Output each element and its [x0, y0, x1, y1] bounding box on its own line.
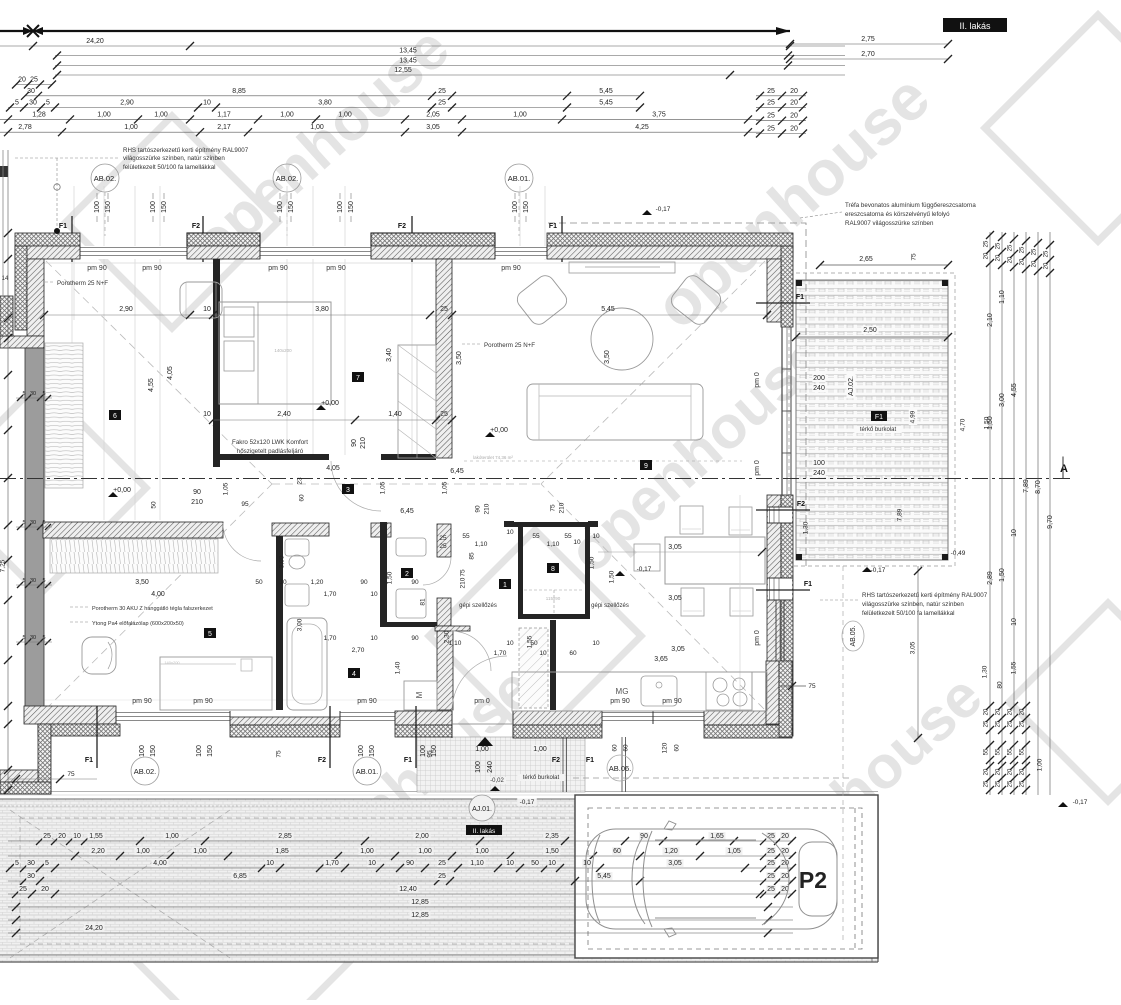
svg-text:F1: F1	[85, 757, 93, 764]
wall pier top F2-2	[371, 233, 495, 246]
interior wall bedroom7 right	[436, 259, 452, 458]
svg-text:150: 150	[207, 745, 214, 757]
svg-text:12,85: 12,85	[411, 912, 429, 919]
svg-text:30: 30	[27, 873, 35, 880]
svg-text:1,05: 1,05	[442, 481, 449, 494]
svg-text:25: 25	[30, 77, 38, 84]
axis circle AB.02 first	[91, 164, 119, 192]
outer wall left step	[0, 336, 44, 348]
svg-text:1,00: 1,00	[1037, 758, 1044, 771]
outer wall right kitchen side	[766, 661, 779, 724]
axis circle AB.05 rotated	[842, 621, 864, 651]
svg-text:100: 100	[150, 201, 157, 213]
room5 armchair	[82, 637, 116, 674]
svg-text:1,50: 1,50	[545, 848, 559, 855]
svg-text:10: 10	[573, 539, 581, 546]
svg-text:3,75: 3,75	[652, 111, 666, 118]
svg-text:1,65: 1,65	[710, 833, 724, 840]
terrace outline dashed offset	[789, 273, 955, 566]
svg-text:A: A	[1060, 463, 1068, 475]
kitchen stove	[706, 672, 752, 710]
svg-text:3,40: 3,40	[386, 348, 393, 362]
svg-text:10: 10	[592, 640, 600, 647]
interior stem wall below room8	[550, 620, 556, 710]
svg-text:30: 30	[27, 88, 35, 95]
svg-text:210: 210	[484, 503, 491, 514]
kitchen sink	[641, 676, 677, 706]
svg-text:1,50: 1,50	[609, 570, 616, 583]
svg-text:60: 60	[569, 650, 577, 657]
svg-text:80: 80	[997, 681, 1004, 689]
svg-text:5: 5	[208, 631, 212, 638]
living dashed ceiling line	[464, 460, 742, 462]
roof hip dashed diagonals	[46, 261, 272, 484]
entrance door opening	[451, 711, 453, 738]
svg-text:F1: F1	[804, 581, 812, 588]
svg-text:2,35: 2,35	[545, 833, 559, 840]
svg-text:Fakro 52x120 LWK Komfort: Fakro 52x120 LWK Komfort	[232, 439, 308, 446]
door arc room5	[223, 523, 261, 561]
window top w3	[495, 246, 547, 259]
svg-text:20: 20	[790, 126, 798, 133]
terrace rotated dims	[909, 409, 918, 425]
svg-text:3,05: 3,05	[668, 860, 682, 867]
watermark diamond mid-left	[0, 382, 146, 594]
svg-text:1,20: 1,20	[311, 579, 324, 586]
svg-text:25: 25	[440, 306, 448, 313]
svg-text:60: 60	[299, 494, 306, 502]
note leader dashed to corner	[15, 157, 120, 159]
svg-text:60: 60	[613, 848, 621, 855]
svg-text:2,78: 2,78	[18, 124, 32, 131]
svg-text:lakóterület 74,36 m²: lakóterület 74,36 m²	[473, 455, 513, 460]
svg-text:5: 5	[22, 520, 25, 526]
svg-text:F2: F2	[552, 757, 560, 764]
svg-text:1: 1	[503, 582, 507, 589]
svg-text:210: 210	[360, 437, 367, 449]
living sofa	[527, 384, 703, 440]
svg-text:1,50: 1,50	[999, 568, 1006, 582]
svg-text:81: 81	[420, 598, 427, 606]
svg-text:24,20: 24,20	[85, 925, 103, 932]
svg-text:-0,17: -0,17	[637, 566, 652, 573]
svg-text:25: 25	[767, 99, 775, 106]
svg-text:25: 25	[996, 242, 1002, 249]
door arc bedroom7	[331, 461, 381, 511]
svg-text:20: 20	[58, 833, 66, 840]
window right rw1	[768, 507, 792, 523]
svg-text:5,45: 5,45	[597, 873, 611, 880]
svg-text:1,00: 1,00	[280, 111, 294, 118]
svg-text:5: 5	[15, 100, 19, 107]
terrace paved area	[796, 280, 948, 560]
svg-text:M: M	[415, 691, 424, 698]
svg-text:3,05: 3,05	[671, 646, 685, 653]
svg-text:55: 55	[532, 533, 540, 540]
svg-text:P2: P2	[799, 867, 827, 893]
svg-text:4,05: 4,05	[167, 366, 174, 380]
svg-text:100: 100	[358, 745, 365, 757]
terrace dim 2,50	[796, 336, 948, 338]
room8 shower dashes	[524, 590, 584, 614]
svg-text:23: 23	[297, 477, 304, 485]
svg-text:MG: MG	[616, 687, 629, 696]
window bottom wb1	[116, 712, 230, 714]
svg-text:-0,17: -0,17	[656, 206, 671, 213]
watermark diamond top-right	[985, 15, 1121, 241]
svg-text:10: 10	[266, 860, 274, 867]
bath4 toilet	[285, 539, 309, 556]
svg-text:30: 30	[30, 635, 36, 641]
svg-text:25: 25	[767, 88, 775, 95]
svg-text:150: 150	[288, 201, 295, 213]
svg-text:6,45: 6,45	[450, 468, 464, 475]
svg-text:1,55: 1,55	[89, 833, 103, 840]
right vertical dimension lines	[989, 232, 991, 795]
garage dashed border	[588, 808, 862, 949]
svg-text:1,70: 1,70	[324, 591, 337, 598]
svg-text:Porotherm 25 N+F: Porotherm 25 N+F	[57, 280, 108, 287]
svg-text:25: 25	[767, 873, 775, 880]
outer wall bottom pier b	[395, 711, 452, 725]
axis circle AB.01	[505, 164, 533, 192]
svg-text:3,80: 3,80	[318, 100, 332, 107]
outer wall bottom-left corner	[24, 706, 116, 724]
svg-text:pm 0: pm 0	[474, 698, 490, 705]
garage stall white area	[575, 795, 878, 958]
window top w1	[80, 246, 187, 259]
svg-text:-0,49: -0,49	[951, 550, 966, 557]
svg-text:240: 240	[487, 761, 494, 773]
svg-text:1,40: 1,40	[395, 661, 402, 674]
svg-text:2,70: 2,70	[861, 51, 875, 58]
svg-text:100: 100	[512, 201, 519, 213]
svg-text:30: 30	[27, 860, 35, 867]
svg-text:24,20: 24,20	[86, 38, 104, 45]
svg-text:25: 25	[438, 100, 446, 107]
axis circles bottom	[131, 757, 159, 785]
svg-text:1,50: 1,50	[589, 556, 596, 569]
svg-text:gépi szellőzés: gépi szellőzés	[591, 603, 629, 609]
svg-text:II. lakás: II. lakás	[959, 21, 991, 31]
section line A-A	[0, 478, 1070, 480]
svg-text:50: 50	[531, 860, 539, 867]
svg-text:25: 25	[440, 411, 448, 418]
svg-text:12,40: 12,40	[399, 886, 417, 893]
svg-text:10: 10	[370, 635, 378, 642]
svg-text:30: 30	[29, 100, 37, 107]
bedroom7 wardrobe	[398, 345, 436, 458]
svg-text:100: 100	[94, 201, 101, 213]
svg-text:-0,17: -0,17	[871, 567, 886, 574]
svg-text:25: 25	[438, 860, 446, 867]
svg-text:10: 10	[1011, 529, 1018, 537]
svg-text:pm 90: pm 90	[662, 698, 682, 705]
svg-text:95: 95	[241, 501, 249, 508]
svg-text:1,40: 1,40	[388, 411, 402, 418]
svg-text:7,89: 7,89	[897, 508, 904, 521]
svg-text:F1: F1	[404, 757, 412, 764]
top dimension rows	[0, 45, 845, 47]
outer wall right upper corner	[781, 246, 793, 327]
svg-text:1,30: 1,30	[803, 521, 810, 534]
svg-text:F1: F1	[875, 414, 883, 421]
svg-text:25: 25	[439, 535, 447, 542]
interior wall bath4 top pier	[272, 523, 329, 536]
car body	[586, 829, 837, 929]
svg-text:AB.02.: AB.02.	[94, 174, 117, 183]
svg-text:1,10: 1,10	[475, 541, 488, 548]
window right kitchen slider	[775, 600, 777, 661]
svg-text:1,55: 1,55	[1011, 661, 1018, 674]
svg-text:100: 100	[139, 745, 146, 757]
svg-text:10: 10	[583, 860, 591, 867]
svg-text:AB.06.: AB.06.	[609, 764, 632, 773]
top right 25-20 tick columns	[756, 95, 806, 97]
svg-text:F1: F1	[796, 294, 804, 301]
svg-text:150: 150	[431, 745, 438, 757]
svg-text:1,28: 1,28	[32, 111, 46, 118]
svg-text:210: 210	[559, 502, 566, 513]
living armchair left	[514, 272, 570, 328]
svg-text:3,00: 3,00	[999, 393, 1006, 407]
svg-text:25: 25	[767, 886, 775, 893]
wall pier top F2-1	[187, 233, 260, 246]
svg-text:210: 210	[460, 577, 467, 588]
svg-text:75: 75	[550, 504, 557, 512]
svg-text:+0,00: +0,00	[113, 487, 131, 494]
svg-text:12,85: 12,85	[411, 899, 429, 906]
svg-text:25: 25	[767, 113, 775, 120]
svg-text:7: 7	[356, 375, 360, 382]
svg-text:F1: F1	[586, 757, 594, 764]
svg-text:20: 20	[790, 99, 798, 106]
svg-text:F2: F2	[192, 223, 200, 230]
svg-text:10: 10	[506, 529, 514, 536]
svg-text:1,00: 1,00	[475, 848, 489, 855]
svg-text:4,99: 4,99	[910, 410, 917, 423]
svg-text:3,05: 3,05	[910, 641, 917, 654]
svg-text:75: 75	[460, 569, 467, 577]
svg-text:pm 90: pm 90	[87, 265, 107, 272]
svg-text:1,00: 1,00	[165, 833, 179, 840]
svg-text:4: 4	[352, 671, 356, 678]
bedroom7 bed	[219, 302, 331, 404]
watermark diamond right	[1009, 603, 1121, 801]
svg-text:20: 20	[781, 833, 789, 840]
watermark diamond bottom-left	[137, 856, 349, 1005]
svg-text:4,55: 4,55	[148, 378, 155, 392]
svg-text:AB.01.: AB.01.	[356, 767, 379, 776]
svg-text:75: 75	[276, 750, 283, 758]
svg-text:9,70: 9,70	[1047, 515, 1054, 529]
svg-text:100: 100	[196, 745, 203, 757]
svg-text:20: 20	[790, 88, 798, 95]
interior sill light line	[44, 262, 767, 264]
svg-text:10: 10	[1011, 618, 1018, 626]
svg-text:2,65: 2,65	[859, 256, 873, 263]
svg-text:1,10: 1,10	[999, 290, 1006, 304]
svg-text:+0,00: +0,00	[490, 427, 508, 434]
svg-text:25: 25	[984, 240, 990, 247]
svg-text:75: 75	[808, 683, 816, 690]
svg-text:90: 90	[411, 635, 419, 642]
svg-text:150: 150	[369, 745, 376, 757]
svg-text:7,89: 7,89	[1023, 479, 1030, 493]
svg-text:90: 90	[360, 579, 368, 586]
svg-text:+0,00: +0,00	[321, 400, 339, 407]
outer wall bottom kitchen corner	[704, 711, 790, 725]
curb lines above paving	[0, 791, 878, 793]
room number boxes	[499, 579, 511, 589]
svg-text:25: 25	[438, 88, 446, 95]
svg-text:2,90: 2,90	[119, 306, 133, 313]
svg-text:1,00: 1,00	[418, 848, 432, 855]
interior wall room5 top	[43, 522, 223, 538]
shower room8 walls	[512, 522, 590, 527]
svg-text:pm 90: pm 90	[357, 698, 377, 705]
svg-text:25: 25	[438, 873, 446, 880]
svg-text:5,45: 5,45	[601, 306, 615, 313]
svg-text:1,70: 1,70	[325, 860, 339, 867]
svg-text:-0,02: -0,02	[490, 778, 504, 784]
neighbour wall fragment top-left	[0, 166, 8, 177]
roof overhang dashed line	[548, 223, 806, 566]
room5 bed	[160, 657, 272, 710]
svg-text:2,30: 2,30	[444, 630, 451, 643]
svg-text:120: 120	[662, 742, 669, 753]
svg-text:2,90: 2,90	[120, 100, 134, 107]
svg-text:3,05: 3,05	[426, 124, 440, 131]
bedroom6 wardrobe striated	[45, 343, 83, 488]
svg-text:25: 25	[1008, 244, 1014, 251]
left vertical dimension line	[7, 150, 9, 790]
window bottom wb2	[340, 712, 395, 714]
svg-text:8,85: 8,85	[232, 88, 246, 95]
svg-text:25: 25	[19, 886, 27, 893]
svg-text:3: 3	[346, 487, 350, 494]
svg-text:gépi szellőzés: gépi szellőzés	[459, 603, 497, 609]
svg-text:140x200: 140x200	[164, 660, 180, 665]
svg-text:5: 5	[22, 578, 25, 584]
top thick dimension line with arrow	[0, 30, 790, 32]
terrace corner markers	[796, 280, 802, 286]
F1 F2 leaders right wall	[756, 509, 810, 511]
svg-text:9: 9	[644, 463, 648, 470]
outer wall left solid gray	[25, 348, 44, 711]
svg-text:150: 150	[523, 201, 530, 213]
interior wall room2 top pier	[371, 523, 391, 537]
svg-text:6,45: 6,45	[400, 508, 414, 515]
dashed leader vertical x843	[842, 566, 844, 940]
svg-text:2,89: 2,89	[987, 571, 994, 585]
bath4 washer	[404, 681, 437, 710]
outer wall right middle piers	[767, 495, 781, 736]
watermark diamond center	[429, 530, 641, 742]
entrance direction triangle	[477, 737, 493, 746]
svg-text:90: 90	[475, 505, 482, 513]
svg-text:AB.02.: AB.02.	[134, 767, 157, 776]
door arc room2	[423, 557, 451, 585]
svg-text:10: 10	[203, 306, 211, 313]
window right rw2	[768, 578, 792, 600]
svg-text:3,50: 3,50	[135, 579, 149, 586]
svg-text:2,17: 2,17	[217, 124, 231, 131]
svg-text:210: 210	[191, 499, 203, 506]
svg-text:1,05: 1,05	[223, 482, 230, 495]
room2 toilet	[396, 538, 426, 556]
terrace dim 2,65	[820, 264, 948, 266]
bath4 tub	[287, 618, 327, 710]
svg-text:1,55: 1,55	[527, 635, 534, 648]
svg-text:55: 55	[564, 533, 572, 540]
svg-text:2,00: 2,00	[415, 833, 429, 840]
svg-text:1,05: 1,05	[380, 481, 387, 494]
svg-text:25: 25	[43, 833, 51, 840]
svg-text:2,40: 2,40	[277, 411, 291, 418]
svg-text:25: 25	[767, 860, 775, 867]
svg-text:150: 150	[161, 201, 168, 213]
svg-text:2,05: 2,05	[426, 111, 440, 118]
svg-text:F2: F2	[797, 501, 805, 508]
outer wall top-left corner	[15, 233, 80, 246]
svg-text:F2: F2	[318, 757, 326, 764]
svg-text:-0,17: -0,17	[520, 799, 535, 806]
svg-text:10: 10	[506, 640, 514, 647]
svg-text:5,45: 5,45	[599, 100, 613, 107]
room2 washbasin	[396, 589, 426, 618]
svg-text:2,10: 2,10	[987, 313, 994, 327]
svg-text:10: 10	[368, 860, 376, 867]
svg-text:8: 8	[551, 566, 555, 573]
living tv board	[569, 262, 675, 273]
svg-text:térkő burkolat: térkő burkolat	[523, 775, 560, 781]
svg-text:AJ.02.: AJ.02.	[848, 376, 855, 396]
svg-text:3,65: 3,65	[654, 656, 668, 663]
svg-text:20: 20	[18, 77, 26, 84]
svg-text:3,50: 3,50	[604, 350, 611, 364]
living armchair right	[668, 272, 724, 328]
svg-text:II. lakás: II. lakás	[473, 828, 496, 835]
svg-text:1,85: 1,85	[275, 848, 289, 855]
svg-text:pm 90: pm 90	[268, 265, 288, 272]
svg-text:2,50: 2,50	[863, 327, 877, 334]
axis leader lines	[104, 192, 106, 236]
svg-text:4,00: 4,00	[151, 591, 165, 598]
svg-text:100: 100	[420, 745, 427, 757]
svg-text:100: 100	[337, 201, 344, 213]
level -0,17 bottom	[517, 799, 537, 807]
svg-text:30: 30	[30, 391, 36, 397]
svg-text:115x90: 115x90	[546, 596, 561, 601]
interior wall bath4 left thin	[276, 536, 283, 710]
svg-text:1,70: 1,70	[494, 650, 507, 657]
svg-text:2,75: 2,75	[861, 36, 875, 43]
svg-text:20: 20	[781, 873, 789, 880]
outer wall bottom pier a	[230, 717, 340, 725]
svg-text:200: 200	[813, 375, 825, 382]
svg-text:25: 25	[767, 126, 775, 133]
svg-text:pm 90: pm 90	[132, 698, 152, 705]
svg-text:1,05: 1,05	[727, 848, 741, 855]
svg-text:25: 25	[1032, 248, 1038, 255]
label box II. lakas top	[943, 18, 1007, 32]
window top w2	[260, 246, 371, 259]
label AJ.01 circle	[469, 795, 495, 821]
garage inner dashed lines	[854, 808, 856, 949]
svg-text:RHS tartószerkezetű kerti épít: RHS tartószerkezetű kerti építmény RAL90…	[123, 147, 249, 154]
svg-text:1,00: 1,00	[338, 111, 352, 118]
